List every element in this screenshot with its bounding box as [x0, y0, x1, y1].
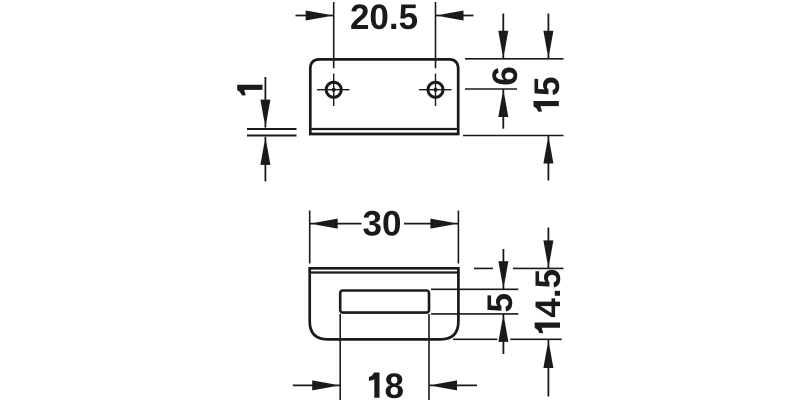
svg-text:5: 5 — [481, 293, 520, 312]
svg-text:30: 30 — [363, 205, 402, 244]
svg-text:20.5: 20.5 — [350, 0, 418, 37]
svg-text:5: 5 — [528, 77, 567, 96]
svg-text:8: 8 — [385, 367, 404, 400]
svg-text:6: 6 — [486, 66, 525, 85]
svg-text:4.5: 4.5 — [529, 269, 568, 318]
